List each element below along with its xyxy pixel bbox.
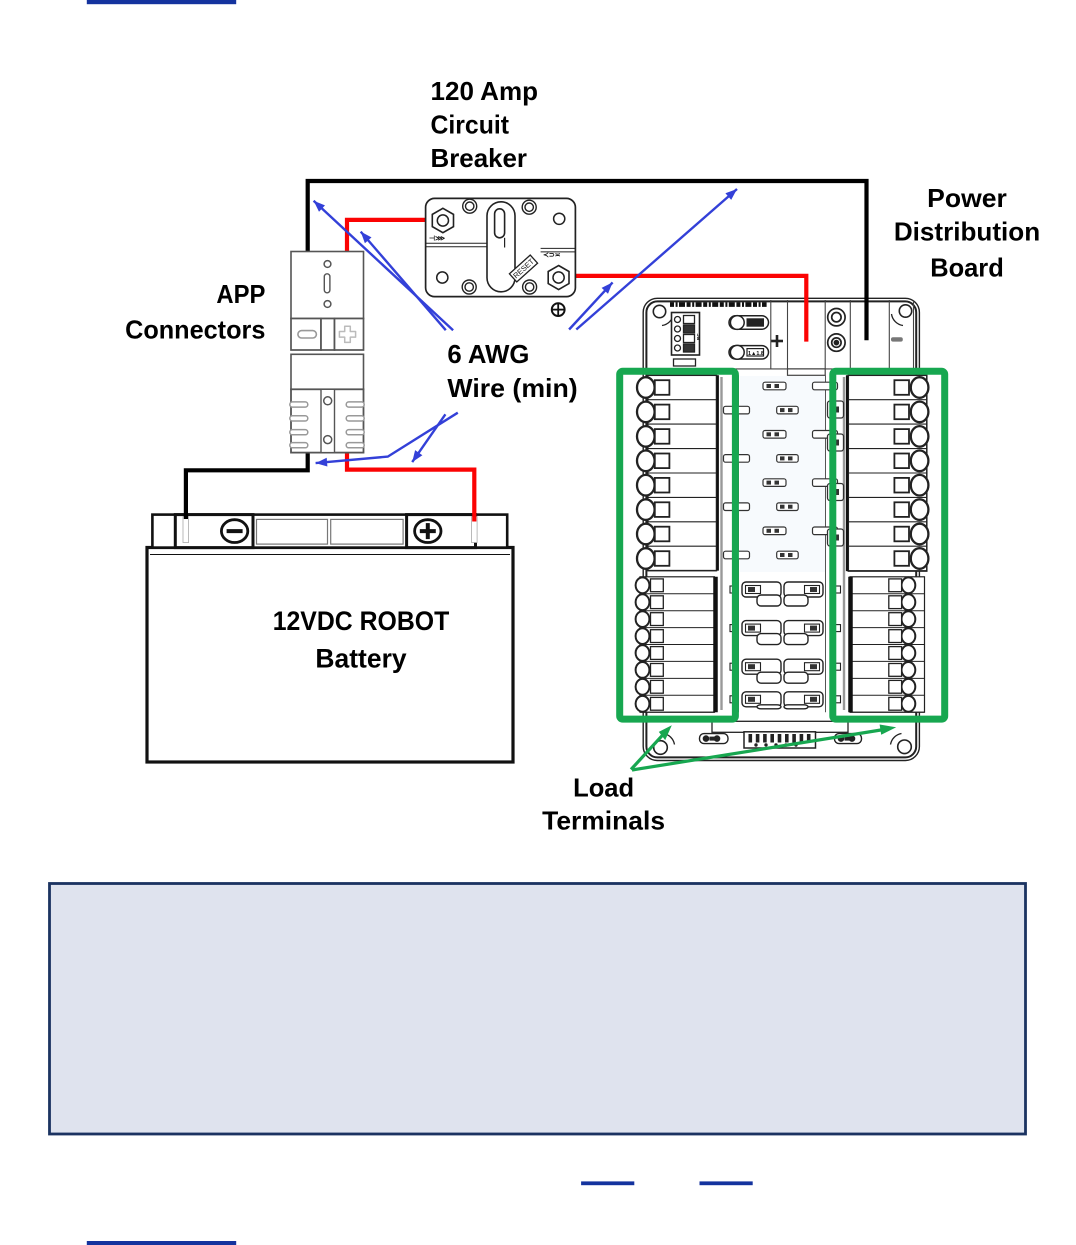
info box (empty) [50, 884, 1026, 1135]
circuit breaker mounting holes [462, 199, 536, 294]
fuse holders lower middle [730, 582, 841, 709]
APP connector crimp ridges [290, 402, 364, 448]
circuit breaker small holes [437, 213, 565, 283]
label 6 AWG Wire (min) [447, 339, 577, 403]
circuit breaker reset lever [487, 202, 515, 292]
wire red circuit breaker to Power Distribution Board [566, 276, 806, 342]
middle column pale tint [740, 376, 825, 572]
load terminal block upper-right [848, 375, 928, 571]
circuit breaker split lines [426, 243, 576, 252]
APP connector upper contact block [291, 319, 364, 351]
board banana jacks [828, 309, 845, 352]
board section dividers [646, 300, 916, 375]
svg-text:APP: APP [216, 279, 265, 309]
link underline 2 [700, 1181, 753, 1185]
power distribution board outline [643, 298, 919, 760]
board plus marking [771, 335, 783, 347]
svg-text:12VDC ROBOT: 12VDC ROBOT [273, 606, 450, 636]
svg-text:Breaker: Breaker [431, 143, 528, 173]
APP connector lower housing [291, 354, 364, 452]
battery top terminal strip [152, 515, 507, 548]
board bottom connector pins [749, 734, 811, 747]
svg-text:Connectors: Connectors [125, 314, 265, 344]
load terminals highlight box left [620, 371, 736, 719]
gray edge bands [722, 377, 845, 710]
svg-text:Board: Board [930, 253, 1004, 283]
svg-text:Power: Power [927, 183, 1007, 213]
label 12VDC ROBOT Battery [273, 606, 450, 673]
board corner mounting holes [653, 305, 911, 755]
svg-text:Wire (min): Wire (min) [447, 373, 577, 403]
callout arrow 6AWG to right black wire [576, 189, 737, 330]
circuit breaker CB1 body [426, 198, 576, 296]
top blue divider bar [87, 0, 236, 4]
green arrow to left box [631, 725, 672, 769]
heavy bus bars [716, 375, 851, 712]
wire red battery positive to APP connector [347, 453, 474, 522]
board pill button MANUAL [729, 316, 769, 330]
circuit breaker polarity glyphs [429, 235, 561, 260]
callout arrow 6AWG to lower black wire [316, 413, 458, 467]
board bottom left connector [700, 734, 729, 744]
board DIP labels [672, 333, 701, 373]
svg-text:120 Amp: 120 Amp [431, 76, 539, 106]
board DIP switch block [672, 313, 700, 367]
bottom blue divider bar [87, 1241, 236, 1245]
board pill button AUTO [729, 345, 769, 359]
label 120 Amp Circuit Breaker [431, 76, 539, 173]
circuit breaker left terminal hex nut [432, 208, 453, 232]
wire black APP connector to top run to Power Distribution Board [308, 181, 867, 340]
callout arrow 6AWG to upper red wire [361, 232, 446, 331]
board minus marking [891, 337, 903, 341]
load terminal block upper-left [637, 375, 717, 570]
load terminal block lower-left [636, 577, 715, 712]
svg-text:Terminals: Terminals [542, 805, 665, 835]
svg-text:Battery: Battery [315, 643, 406, 673]
svg-text:⊣⋙: ⊣⋙ [429, 235, 445, 243]
battery negative terminal mark [183, 517, 189, 543]
wire red APP connector to circuit breaker [347, 220, 433, 252]
wire black battery negative to APP connector [186, 453, 308, 519]
fuse slots middle column [724, 382, 838, 559]
board corner brackets [662, 314, 903, 745]
svg-text:Load: Load [573, 773, 634, 803]
callout arrow 6AWG to lower red wire [412, 414, 445, 462]
ground screw symbol below breaker [552, 303, 565, 316]
battery minus symbol [221, 520, 247, 543]
svg-text:1▲1.8: 1▲1.8 [748, 351, 764, 357]
label APP Connectors [125, 279, 265, 344]
circuit breaker RESET tag [509, 255, 537, 282]
battery body [147, 548, 513, 763]
load terminal block lower-right [850, 577, 925, 712]
svg-text:RC: RC [696, 333, 701, 340]
callout arrow 6AWG to right red wire [569, 282, 613, 329]
svg-text:Distribution: Distribution [894, 217, 1040, 247]
battery plus symbol [415, 520, 441, 543]
link underline 1 [581, 1181, 634, 1185]
svg-text:6 AWG: 6 AWG [447, 339, 529, 369]
APP connector upper housing [291, 252, 364, 319]
label Power Distribution Board [894, 183, 1040, 282]
green arrow to right box [632, 725, 896, 771]
svg-text:Circuit: Circuit [431, 110, 510, 140]
board top barcode strip [670, 302, 767, 307]
callout arrow 6AWG to upper black wire [314, 201, 454, 330]
load terminals highlight box right [833, 371, 945, 719]
board bottom connector plate [712, 721, 848, 748]
middle column boundary lines [739, 375, 826, 712]
board bottom right connector [835, 734, 862, 744]
svg-text:≺⊃≍: ≺⊃≍ [543, 251, 561, 259]
label Load Terminals [542, 773, 665, 836]
battery positive terminal mark [472, 517, 478, 543]
circuit breaker right terminal hex nut [548, 266, 569, 290]
right-side fuse bodies [828, 401, 844, 546]
